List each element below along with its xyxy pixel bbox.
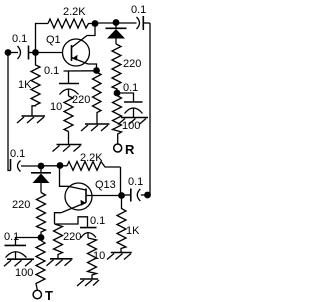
node emitter dot bbox=[93, 67, 100, 74]
wire bypass lower left bbox=[16, 238, 39, 246]
resistor 220 emitter bbox=[93, 72, 102, 124]
node collector dot bbox=[92, 20, 99, 27]
svg-text:220: 220 bbox=[63, 231, 81, 243]
node right rail lower dot bbox=[144, 192, 151, 199]
ground G7 bbox=[77, 279, 99, 286]
terminal T bbox=[33, 290, 41, 298]
wire right rail down bbox=[149, 23, 151, 195]
capacitor C3 0.1 emitter bbox=[59, 71, 79, 96]
svg-text:Q13: Q13 bbox=[95, 179, 116, 191]
resistor 1K left bbox=[31, 55, 40, 105]
node lower diode dot bbox=[38, 163, 45, 170]
transistor Q13 bbox=[55, 169, 93, 225]
wire node A up and base wire right bbox=[36, 24, 49, 51]
node R chain dot bbox=[114, 90, 121, 97]
svg-text:0.1: 0.1 bbox=[128, 176, 143, 188]
resistor 100 lower bbox=[36, 241, 45, 291]
capacitor C7 0.1 bypass lower bbox=[5, 245, 27, 259]
svg-text:0.1: 0.1 bbox=[123, 82, 138, 94]
wire emitter branch lower bbox=[55, 217, 88, 228]
resistor 220 emitter lower bbox=[54, 224, 63, 259]
node input dot bbox=[5, 49, 12, 56]
capacitor C5 0.1 input lower bbox=[11, 159, 39, 172]
svg-text:220: 220 bbox=[12, 199, 30, 211]
wire left rail down to lower input cap bbox=[8, 53, 11, 171]
wire emitter branch left bbox=[64, 70, 97, 72]
capacitor C4 0.1 bypass right bbox=[124, 102, 143, 118]
node lower collector dot bbox=[57, 162, 64, 169]
svg-text:0.1: 0.1 bbox=[4, 231, 19, 243]
ground G8 bbox=[107, 253, 132, 260]
svg-text:10: 10 bbox=[93, 250, 105, 262]
svg-text:2.2K: 2.2K bbox=[80, 152, 103, 164]
resistor 1K lower bbox=[117, 199, 126, 253]
svg-text:220: 220 bbox=[72, 94, 90, 106]
terminal R bbox=[114, 144, 122, 152]
wire base to Q1 bbox=[38, 52, 63, 54]
resistor 2.2K top feedback bbox=[48, 19, 93, 28]
svg-text:100: 100 bbox=[15, 267, 33, 279]
ground G5 bbox=[4, 259, 34, 266]
ground G4 bbox=[118, 118, 148, 125]
svg-text:0.1: 0.1 bbox=[44, 65, 59, 77]
svg-text:1K: 1K bbox=[18, 79, 32, 91]
svg-text:10: 10 bbox=[50, 101, 62, 113]
svg-text:0.1: 0.1 bbox=[131, 4, 146, 16]
diode D2 lower bbox=[31, 169, 51, 193]
capacitor C6 0.1 lower right bbox=[125, 189, 146, 202]
ground G2 bbox=[53, 132, 82, 152]
svg-text:T: T bbox=[45, 288, 53, 302]
capacitor C1 0.1 input top bbox=[11, 46, 33, 60]
resistor 10 top bbox=[64, 96, 73, 132]
capacitor C8 0.1 emitter lower bbox=[80, 228, 97, 238]
wire bypass right bbox=[120, 93, 134, 102]
ground G3 bbox=[81, 124, 110, 131]
svg-text:220: 220 bbox=[123, 58, 141, 70]
diode D1 top bbox=[106, 25, 127, 44]
transistor Q1 bbox=[63, 27, 97, 69]
svg-text:Q1: Q1 bbox=[46, 34, 61, 46]
resistor 100 right bbox=[113, 96, 122, 145]
svg-text:R: R bbox=[125, 142, 135, 157]
ground G1 bbox=[17, 105, 45, 123]
resistor 10 lower bbox=[88, 238, 97, 279]
wire lower rail bbox=[44, 165, 67, 167]
capacitor C2 0.1 top right bbox=[137, 16, 151, 30]
resistor 2.2K lower bbox=[67, 162, 121, 171]
ground G6 bbox=[47, 259, 73, 266]
node diode top dot bbox=[113, 19, 120, 26]
svg-text:0.1: 0.1 bbox=[12, 33, 27, 45]
wire lower base rail corner bbox=[120, 167, 122, 193]
wire base lead Q13 bbox=[86, 195, 119, 197]
svg-text:0.1: 0.1 bbox=[10, 148, 25, 160]
node A dot base of Q1 bbox=[32, 49, 39, 56]
resistor 220 lower left bbox=[37, 193, 46, 235]
svg-text:1K: 1K bbox=[126, 225, 140, 237]
node lower base dot bbox=[118, 192, 125, 199]
node lower T chain dot bbox=[38, 234, 45, 241]
svg-text:0.1: 0.1 bbox=[90, 215, 105, 227]
svg-text:2.2K: 2.2K bbox=[63, 6, 86, 18]
wire top rail bbox=[95, 22, 137, 24]
resistor 220 right bbox=[112, 44, 121, 90]
